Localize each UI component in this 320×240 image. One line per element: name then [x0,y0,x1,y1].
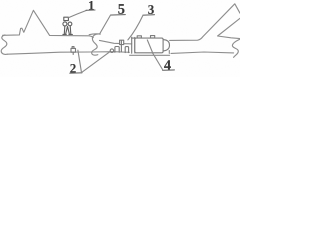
right pipe break squiggle [232,39,239,57]
lower channel line left segment [7,52,129,55]
pump cap box [64,17,69,20]
tank top stub to flange [132,37,135,39]
staple clamp on lower line [115,47,119,53]
pump handle / leader to label 1 [69,10,87,17]
tank dome cap [163,40,169,51]
left pipe break squiggle [1,35,7,54]
base box on lower line (label 2 target) [71,48,76,52]
right top line curving into break-edge diagonal [170,4,240,41]
label 5 underline [111,14,126,17]
flag box stem inside [120,40,122,44]
ground line and mountains (left terrain) [3,10,94,37]
middle pipe break squiggle body [92,34,101,55]
dome support tick [168,51,170,54]
label 4 underline [163,69,175,71]
nozzle box at tank inlet [125,47,128,53]
tank top flange left [137,36,141,38]
lower base line under tank [130,54,170,56]
base box cap [72,47,74,49]
label 2 leader to base box [78,50,82,72]
svg-text:4: 4 [164,58,171,74]
label 5 leader [100,15,111,33]
flag post box [120,40,124,44]
tank top flange right [151,36,155,38]
label 2 leader to valve circle [82,51,111,72]
flange verticals at tank inlet [132,37,135,53]
valve circle on lower line [110,49,114,53]
base box lower stub [72,52,74,54]
middle pipe break squiggle [89,33,100,36]
tank body [135,38,163,53]
label 1 underline [86,9,95,11]
scan grain [0,0,1,1]
lower channel line right segment [171,52,234,53]
label 4 leader into tank [147,40,163,70]
label 3 leader [128,15,143,40]
leader 4 segment inside tank [147,40,153,54]
pump unit wheels [63,22,67,26]
label 3 underline [143,14,155,17]
pump unit A-frame braces [66,26,70,34]
label 2 underline [70,72,82,74]
top line right of break to nozzle [100,40,132,44]
right break-edge zigzag [218,18,240,38]
flag post (label 3 target) stem [120,41,122,53]
pump unit feet [63,33,73,35]
pump unit legs [64,26,71,34]
